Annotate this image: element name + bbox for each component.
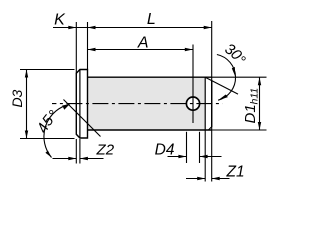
dimension L <box>88 11 212 29</box>
svg-text:K: K <box>54 12 66 29</box>
dimension Z1 end chamfer <box>186 164 245 181</box>
end face of pin <box>211 80 213 127</box>
dimension K <box>53 12 88 30</box>
hole vertical centerline / A extension <box>192 45 194 124</box>
pin body (shank) gray fill <box>88 77 212 130</box>
pin head <box>76 70 87 139</box>
svg-text:Z2: Z2 <box>96 141 115 158</box>
dimension D3 head diameter <box>9 70 75 139</box>
extension line chamfer start / Z1 <box>204 130 206 182</box>
extension line head left / K <box>75 22 77 74</box>
30 degree chamfer angle callout <box>217 40 249 100</box>
svg-text:Z1: Z1 <box>226 164 245 181</box>
chamfer start line at pin end <box>204 77 206 130</box>
dimension D1 h11 shank diameter <box>212 77 267 130</box>
45 degree head chamfer callout <box>34 100 101 158</box>
svg-text:A: A <box>137 35 149 52</box>
head chamfer line <box>79 70 81 139</box>
top 30deg chamfer edge + construction line <box>205 77 238 94</box>
svg-text:L: L <box>147 11 156 28</box>
dimension Z2 head chamfer <box>53 139 115 164</box>
dimension D4 hole diameter <box>155 132 222 163</box>
svg-text:D4: D4 <box>155 142 175 159</box>
extension line pin end / L Z1 <box>211 21 213 182</box>
axis centerline <box>52 103 223 105</box>
bottom 30deg chamfer edge <box>208 127 211 130</box>
wire: shank top edge <box>88 76 212 78</box>
hole D4 <box>186 97 199 110</box>
dimension A <box>88 35 193 52</box>
extension line head right / K L A <box>87 22 89 70</box>
svg-text:D3: D3 <box>9 89 25 107</box>
wire: shank bottom edge <box>88 129 212 131</box>
